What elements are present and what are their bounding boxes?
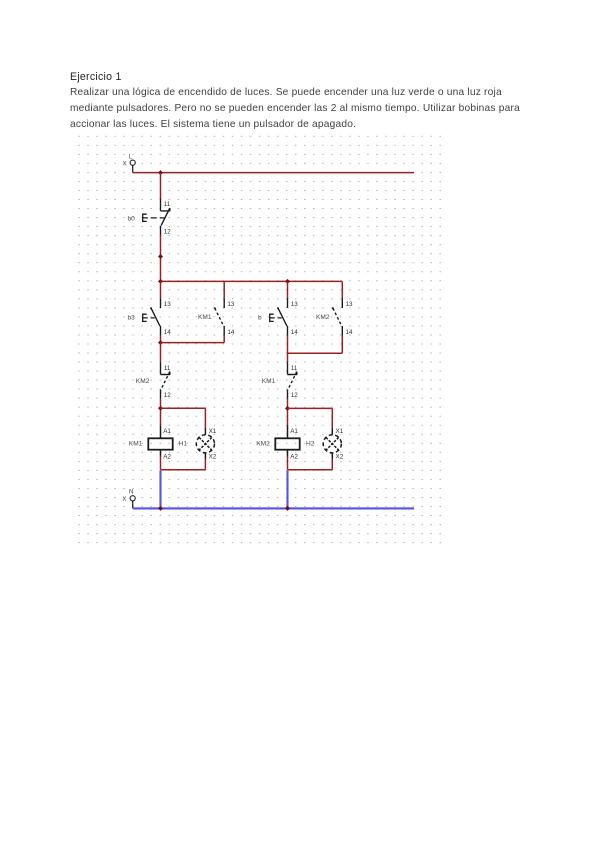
wire join right group [288, 469, 333, 471]
svg-text:KM1: KM1 [129, 441, 143, 448]
svg-text:13: 13 [227, 301, 235, 308]
svg-text:A1: A1 [290, 428, 298, 435]
wire drop KM2 aux [341, 281, 343, 298]
svg-text:X2: X2 [209, 453, 217, 460]
contact KM2 NO aux [333, 299, 342, 336]
terminal L [123, 153, 136, 172]
svg-text:KM2: KM2 [316, 314, 330, 321]
wire to KM2 NC [160, 343, 162, 363]
wire to KM1 NC [287, 353, 289, 362]
pivot dot KM1 aux [214, 307, 216, 309]
junction coil/lamp left [158, 406, 163, 411]
svg-text:X1: X1 [336, 428, 344, 435]
wire drop b right [287, 281, 289, 298]
wire neutral drop left (blue) [159, 471, 161, 509]
wire lamp H1 down [204, 459, 206, 470]
pivot dot b3 [150, 307, 152, 309]
svg-text:11: 11 [164, 365, 171, 372]
svg-text:b3: b3 [128, 314, 136, 321]
wire bus3L [161, 336, 225, 343]
svg-text:b: b [258, 314, 262, 321]
svg-text:KM1: KM1 [262, 378, 276, 385]
svg-text:13: 13 [164, 301, 172, 308]
b3 actuator [143, 314, 155, 323]
pushbutton b NO contact (right) [278, 299, 287, 336]
wire coil KM1 down [160, 457, 162, 470]
coil KM1 [129, 426, 173, 461]
junction top bus / b0 drop [158, 170, 163, 175]
pushbutton b0 NC contact [161, 198, 170, 235]
svg-text:12: 12 [164, 229, 172, 236]
node mid wire [158, 254, 163, 259]
svg-text:11: 11 [291, 365, 298, 372]
wire neutral drop right (blue) [286, 471, 288, 509]
svg-text:14: 14 [227, 329, 235, 336]
svg-text:KM2: KM2 [136, 378, 150, 385]
wire neutral bus (blue) [133, 507, 414, 509]
wire drop b3 [160, 281, 162, 298]
svg-text:KM1: KM1 [198, 314, 212, 321]
svg-text:H1: H1 [179, 441, 188, 448]
wire lamp H2 down [331, 459, 333, 470]
svg-text:N: N [129, 489, 134, 496]
lamp H1 [179, 428, 217, 460]
svg-text:12: 12 [164, 392, 172, 399]
wire top L bus [133, 172, 414, 174]
wire lamp H2 branch [288, 408, 333, 428]
svg-text:A1: A1 [163, 428, 171, 435]
lamp H2 [306, 428, 344, 460]
svg-text:L: L [129, 153, 133, 160]
svg-text:X2: X2 [336, 453, 344, 460]
b actuator [270, 314, 282, 323]
svg-text:11: 11 [164, 201, 171, 208]
svg-text:14: 14 [346, 329, 354, 336]
pushbutton b3 NO contact [151, 299, 160, 336]
wire KM1 NC to coil node (right) [287, 399, 289, 426]
wire b3 to join bus3L [160, 336, 162, 343]
svg-text:13: 13 [291, 301, 299, 308]
svg-text:H2: H2 [306, 441, 315, 448]
wire b0 to bus2 [160, 235, 162, 281]
wire bus2 [161, 280, 343, 282]
contact KM1 NC [288, 362, 297, 398]
svg-text:13: 13 [346, 301, 354, 308]
svg-text:A2: A2 [290, 453, 298, 460]
svg-text:A2: A2 [163, 453, 171, 460]
svg-text:X: X [122, 497, 126, 503]
wire join left group [161, 469, 206, 471]
junction coil/lamp right [285, 406, 290, 411]
pivot dot KM2 aux [332, 307, 334, 309]
junction neutral left [158, 506, 163, 511]
coil KM2 [256, 426, 299, 461]
junction bus2 col3 [285, 279, 290, 284]
wire b0 drop [160, 173, 162, 199]
wire bus3R [288, 336, 343, 354]
junction bus3L [158, 340, 163, 345]
svg-text:KM2: KM2 [256, 441, 270, 448]
wire KM2 NC to coil node [160, 399, 162, 426]
svg-text:X1: X1 [209, 428, 217, 435]
contact KM1 NO aux [215, 299, 224, 336]
junction neutral right [285, 506, 290, 511]
contact KM2 NC [161, 362, 170, 398]
pivot dot b right [277, 307, 279, 309]
svg-text:b0: b0 [128, 215, 136, 222]
svg-text:12: 12 [291, 392, 299, 399]
svg-text:14: 14 [291, 329, 299, 336]
wire drop KM1 aux [223, 281, 225, 298]
b0 actuator [143, 214, 165, 223]
wire coil KM2 down [287, 457, 289, 470]
svg-text:14: 14 [164, 329, 172, 336]
junction bus2 left [158, 279, 163, 284]
wire lamp H1 branch [161, 408, 206, 428]
wire b to bus3R [287, 336, 289, 354]
terminal N [122, 489, 135, 509]
svg-text:X: X [123, 161, 127, 167]
